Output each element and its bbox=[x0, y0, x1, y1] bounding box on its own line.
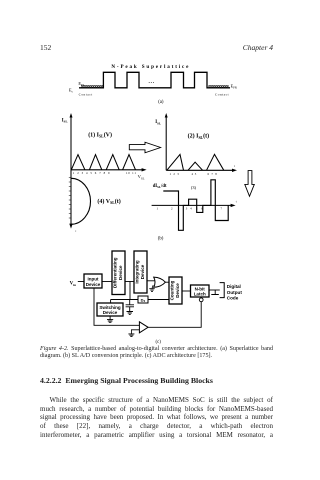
graph3 pulse waveform bbox=[163, 180, 228, 231]
capacitor C to ground bbox=[126, 300, 134, 312]
svg-text:7: 7 bbox=[221, 206, 223, 210]
ground below or-gate bbox=[149, 289, 154, 292]
right contact hatching bbox=[208, 85, 228, 88]
ground below switching device bbox=[107, 316, 113, 322]
svg-text:VSL: VSL bbox=[138, 174, 145, 180]
svg-text:(2) ISL(t): (2) ISL(t) bbox=[188, 133, 210, 140]
svg-text:Output: Output bbox=[227, 290, 243, 295]
svg-text:Integrating: Integrating bbox=[134, 260, 139, 284]
svg-text:Device: Device bbox=[140, 264, 145, 279]
svg-text:t: t bbox=[236, 200, 237, 204]
wire integrating to or-gate bbox=[147, 280, 155, 282]
wire or-gate to counting bbox=[165, 281, 169, 283]
graph3 x-axis bbox=[152, 204, 233, 206]
block N-bit Latch bbox=[191, 285, 210, 297]
graph1 y-axis bbox=[70, 116, 72, 226]
svg-text:ISL: ISL bbox=[155, 120, 161, 125]
graph1 sawtooth bbox=[71, 155, 135, 170]
svg-text:Latch: Latch bbox=[194, 292, 206, 297]
svg-text:(4) VSL(t): (4) VSL(t) bbox=[97, 198, 120, 205]
block Counting Device bbox=[169, 277, 182, 304]
superlattice band profile bbox=[79, 72, 230, 88]
graph2 x-axis bbox=[166, 169, 234, 171]
wire counting to latch bbox=[182, 290, 191, 292]
svg-text:34: 34 bbox=[186, 206, 195, 210]
wire D2 to counting bbox=[148, 299, 169, 301]
bus bracket bbox=[220, 283, 225, 298]
svg-text:Ec: Ec bbox=[69, 87, 74, 93]
capacitor ground bbox=[127, 312, 134, 315]
svg-text:Input: Input bbox=[88, 277, 99, 282]
svg-text:t: t bbox=[234, 164, 235, 168]
svg-text:Digital: Digital bbox=[227, 284, 241, 289]
svg-text:Code: Code bbox=[227, 296, 239, 301]
page header bbox=[40, 43, 51, 52]
graph1 bottom arrow bbox=[69, 224, 72, 229]
svg-text:678: 678 bbox=[208, 172, 220, 176]
wire op-amp output to latch bubble bbox=[148, 302, 201, 328]
svg-text:Device: Device bbox=[103, 310, 118, 315]
wire lower bus left bbox=[111, 299, 138, 301]
stub switching device bbox=[110, 300, 112, 304]
svg-text:1: 1 bbox=[157, 206, 159, 210]
svg-text:dISL/dt: dISL/dt bbox=[153, 184, 167, 189]
svg-text:ISL: ISL bbox=[62, 119, 68, 124]
svg-text:2: 2 bbox=[171, 206, 173, 210]
caption bbox=[40, 346, 273, 360]
block Input Device bbox=[84, 274, 102, 288]
wire input to differentiating bbox=[102, 281, 112, 283]
graph2 waveform bbox=[167, 154, 224, 170]
graph1 x-axis bbox=[71, 169, 144, 171]
svg-text:Counting: Counting bbox=[169, 280, 174, 300]
svg-text:(1) ISL(V): (1) ISL(V) bbox=[88, 131, 112, 138]
semicircle V(t) bbox=[71, 178, 91, 224]
ground at op-amp input bbox=[128, 334, 134, 337]
left contact hatching bbox=[81, 85, 103, 88]
bus tap symbol bbox=[211, 290, 219, 295]
svg-text:Contact: Contact bbox=[79, 92, 93, 96]
svg-text:N-Peak Superlattice: N-Peak Superlattice bbox=[111, 64, 190, 70]
block Integrating Device bbox=[134, 251, 147, 293]
block D2 bbox=[138, 296, 148, 303]
block Differentiating Device bbox=[112, 251, 125, 295]
graph2 y-axis bbox=[165, 116, 167, 170]
junction wire down from main line bbox=[129, 282, 131, 300]
svg-text:Device: Device bbox=[118, 265, 123, 280]
op-amp comparator bbox=[139, 322, 148, 333]
svg-text:123456789: 123456789 bbox=[73, 171, 113, 175]
wire input device down bbox=[94, 288, 139, 325]
svg-text:(b): (b) bbox=[158, 237, 164, 242]
wire differentiating to integrating bbox=[125, 281, 134, 283]
svg-text:D2: D2 bbox=[141, 297, 146, 303]
svg-text:56: 56 bbox=[196, 206, 207, 210]
svg-text:EFL: EFL bbox=[78, 81, 84, 87]
svg-text:10 11: 10 11 bbox=[126, 171, 137, 175]
svg-text:(c): (c) bbox=[156, 340, 162, 345]
svg-text:Device: Device bbox=[86, 282, 101, 287]
hollow down arrow bbox=[245, 171, 255, 197]
svg-text:(3): (3) bbox=[191, 185, 197, 190]
svg-text:...: ... bbox=[149, 79, 155, 85]
latch clock bubble bbox=[199, 298, 203, 302]
axis ticks beside semicircle bbox=[69, 178, 71, 219]
wire Vin to input device bbox=[78, 281, 84, 283]
or-gate lower input stub bbox=[152, 285, 153, 288]
svg-text:(a): (a) bbox=[158, 100, 164, 105]
svg-text:Contact: Contact bbox=[215, 92, 229, 96]
svg-text:123: 123 bbox=[170, 172, 182, 176]
section heading bbox=[40, 376, 213, 385]
hollow right arrow bbox=[129, 142, 160, 153]
svg-text:EFR: EFR bbox=[231, 84, 237, 90]
block Switching Device bbox=[97, 303, 123, 316]
svg-text:Vin: Vin bbox=[70, 282, 77, 287]
or-gate bbox=[154, 277, 166, 287]
svg-text:45: 45 bbox=[192, 172, 199, 176]
svg-text:Differentiating: Differentiating bbox=[112, 257, 117, 288]
op-amp minus input wire bbox=[131, 330, 139, 334]
svg-text:t: t bbox=[76, 230, 77, 233]
body paragraph bbox=[40, 396, 273, 404]
svg-text:Device: Device bbox=[175, 283, 180, 298]
wire latch to output bus bbox=[209, 289, 220, 291]
